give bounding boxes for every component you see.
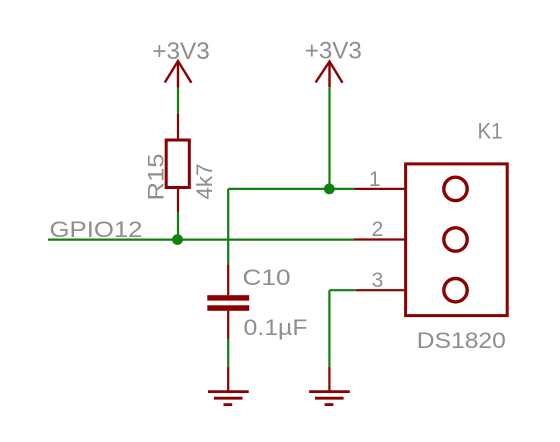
wire +3V3 net horizontal to pin 1	[228, 188, 355, 190]
wire +3V3 to R15	[177, 88, 179, 115]
capacitor C10 plate top	[207, 295, 249, 300]
svg-text:K1: K1	[478, 118, 503, 143]
svg-text:C10: C10	[243, 265, 291, 290]
svg-text:GPIO12: GPIO12	[50, 217, 143, 242]
svg-text:DS1820: DS1820	[417, 328, 506, 353]
capacitor C10 plate bottom	[207, 305, 249, 311]
resistor R15 body	[166, 140, 189, 188]
connector K1 hole 2	[444, 228, 467, 251]
svg-text:+3V3: +3V3	[152, 38, 210, 65]
wire R15 to GPIO12 net	[177, 212, 179, 240]
connector K1 pin 2 stub	[354, 238, 406, 240]
connector K1 pin 3 stub	[356, 289, 406, 291]
connector K1 hole 3	[444, 279, 467, 302]
connector K1 pin 1 stub	[355, 188, 406, 190]
connector K1 hole 1	[444, 177, 467, 200]
ground GND1 bars	[208, 392, 249, 405]
junction dot GPIO12/R15	[172, 234, 183, 245]
net GPIO12 wire	[48, 239, 354, 241]
junction dot +3V3/pin1	[324, 184, 335, 195]
supply +3V3 arrow P2	[316, 62, 343, 88]
ground GND2 pin	[328, 367, 330, 392]
svg-text:0.1µF: 0.1µF	[244, 315, 308, 340]
ground GND1 pin	[227, 367, 229, 392]
svg-text:2: 2	[372, 218, 384, 241]
resistor R15 pin top	[177, 114, 179, 142]
ground GND2 bars	[309, 392, 350, 405]
svg-text:4k7: 4k7	[192, 164, 217, 200]
supply +3V3 arrow P1	[165, 61, 192, 88]
wire pin3 horizontal	[329, 289, 356, 291]
wire pin3 down to ground	[328, 290, 330, 367]
wire +3V3 net vertical to C10	[227, 189, 229, 265]
svg-text:1: 1	[369, 168, 381, 191]
connector K1 body	[406, 164, 508, 316]
capacitor C10 pin bottom	[227, 311, 229, 339]
wire C10 to ground	[227, 339, 229, 367]
wire +3V3 P2 down to junction	[328, 87, 330, 189]
capacitor C10 pin top	[227, 264, 229, 295]
svg-text:+3V3: +3V3	[305, 38, 362, 65]
svg-text:3: 3	[372, 269, 384, 292]
resistor R15 pin bottom	[177, 186, 179, 212]
svg-text:R15: R15	[144, 154, 169, 201]
